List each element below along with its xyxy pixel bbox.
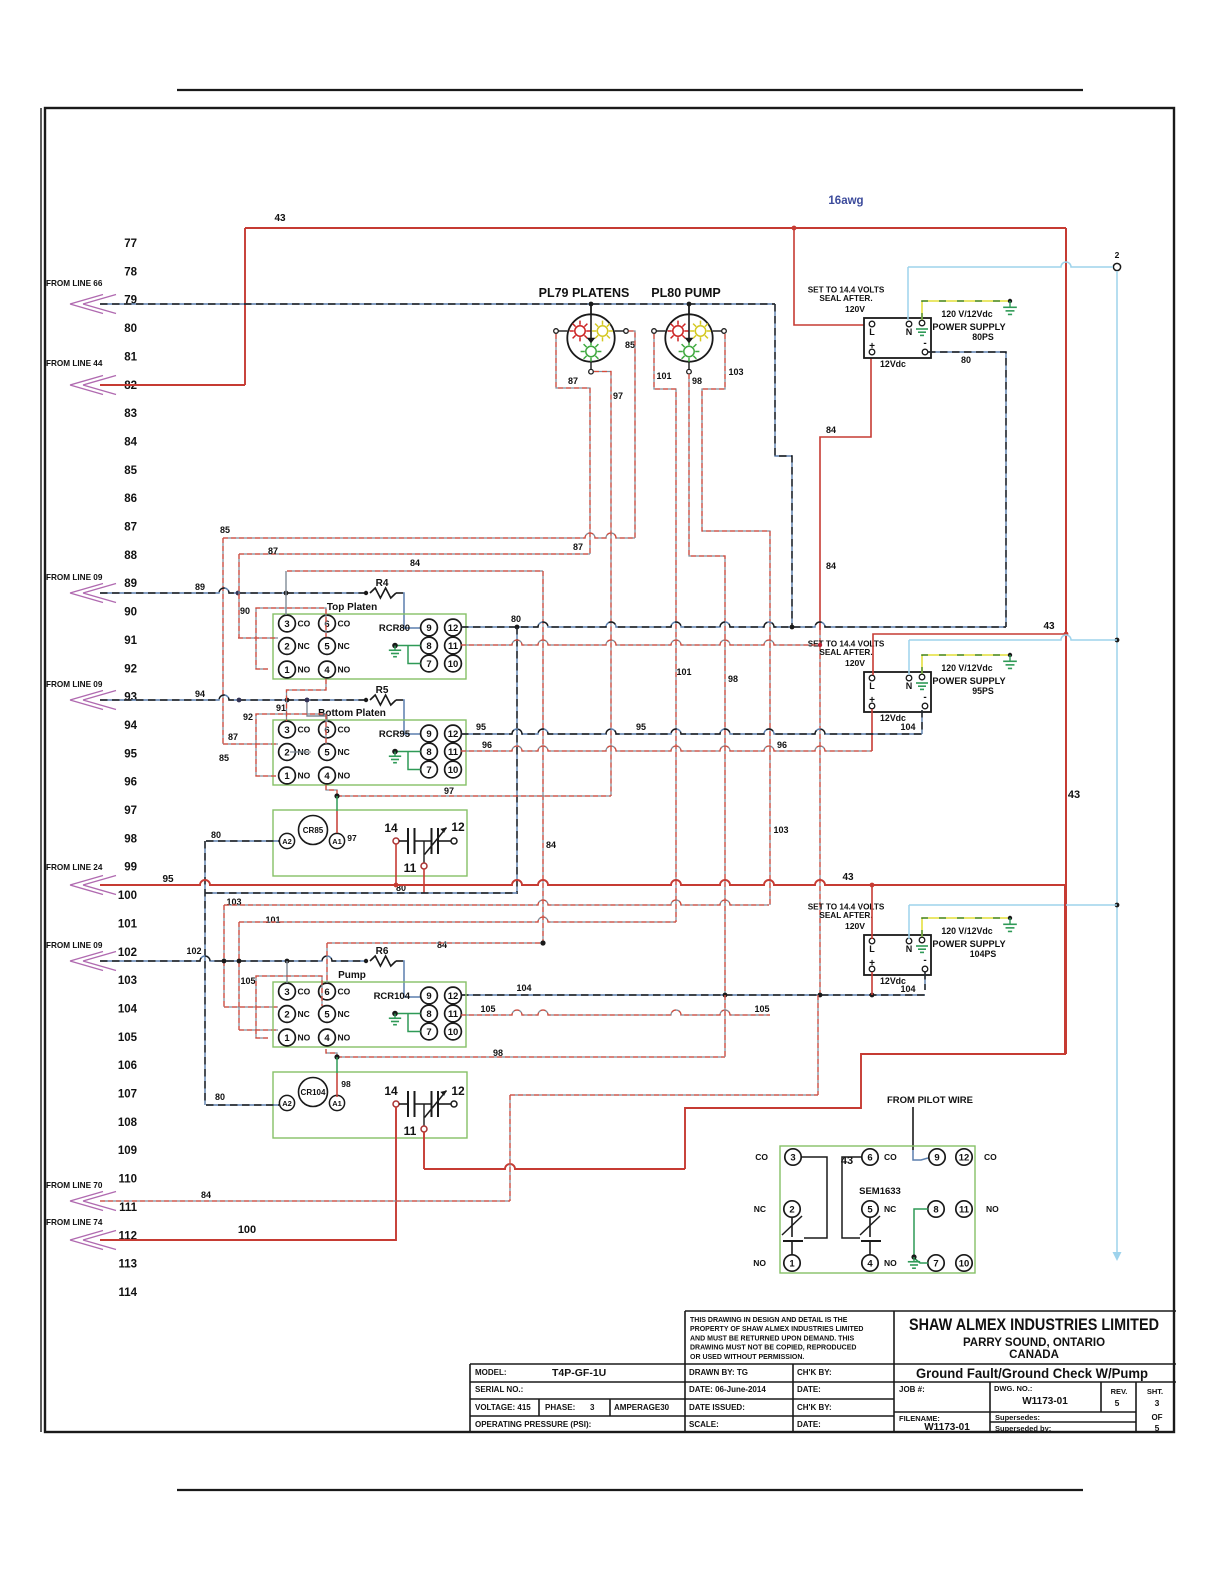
wire 91 RCR80 pin4 to rung 93 and RCR95 pin 3 [276, 679, 326, 721]
svg-text:-: - [923, 955, 926, 966]
wire 96 from RCR95 pin 11 [461, 740, 872, 751]
relay RCR80 (Top Platen) [273, 602, 466, 679]
svg-text:95: 95 [476, 722, 486, 732]
svg-text:RCR95: RCR95 [379, 729, 411, 740]
svg-text:NC: NC [338, 641, 350, 651]
wire 98 from PL80 bottom [689, 374, 738, 995]
svg-text:120 V/12Vdc: 120 V/12Vdc [941, 663, 992, 673]
svg-text:43: 43 [274, 213, 286, 224]
bus 80 (dashed) [461, 614, 1006, 629]
wire 80 to CR104 A2 [206, 1092, 279, 1105]
svg-text:POWER SUPPLY: POWER SUPPLY [932, 676, 1005, 686]
wire lamp stems [590, 304, 592, 315]
wire 43 top [100, 213, 1066, 1054]
svg-text:108: 108 [118, 1117, 138, 1129]
contact CR104 14-12-11 [384, 1084, 465, 1138]
svg-text:104PS: 104PS [970, 949, 997, 959]
svg-text:6: 6 [867, 1152, 872, 1163]
pilot light PL80 [652, 304, 727, 374]
svg-text:REV.: REV. [1111, 1387, 1128, 1396]
svg-text:NC: NC [298, 1009, 310, 1019]
svg-text:PHASE:: PHASE: [545, 1403, 575, 1412]
wire 43 CR104 11 feed [100, 789, 1176, 1433]
SEM contact column 1 [782, 1157, 827, 1255]
svg-text:FROM PILOT WIRE: FROM PILOT WIRE [887, 1095, 973, 1106]
wire 101 horizontal [239, 915, 676, 1030]
svg-text:4: 4 [324, 665, 330, 676]
svg-text:MODEL:: MODEL: [475, 1368, 507, 1377]
svg-text:R4: R4 [376, 578, 389, 589]
svg-text:98: 98 [728, 674, 738, 684]
svg-text:2: 2 [284, 641, 289, 652]
wire 97 to CR85 A1 [337, 796, 357, 843]
svg-text:93: 93 [124, 692, 137, 704]
svg-text:CR104: CR104 [301, 1088, 326, 1097]
svg-text:FROM LINE 09: FROM LINE 09 [46, 941, 103, 950]
svg-text:2: 2 [1115, 250, 1120, 260]
svg-text:2: 2 [284, 747, 289, 758]
wire 87 from PL79 left [556, 334, 590, 554]
svg-text:12Vdc: 12Vdc [880, 359, 906, 369]
svg-text:9: 9 [426, 729, 431, 740]
svg-text:Supersedes:: Supersedes: [995, 1413, 1040, 1422]
svg-text:NO: NO [298, 665, 311, 675]
wire 84 branch horizontal [287, 558, 556, 943]
svg-text:10: 10 [448, 659, 459, 670]
svg-text:80: 80 [124, 323, 137, 335]
svg-text:11: 11 [404, 1124, 417, 1138]
svg-text:NO: NO [338, 665, 351, 675]
svg-text:OF: OF [1151, 1413, 1162, 1422]
svg-text:9: 9 [426, 623, 431, 634]
svg-text:Pump: Pump [338, 970, 366, 981]
arrow FROM LINE 09 [46, 573, 116, 603]
svg-text:95: 95 [636, 722, 646, 732]
svg-text:80: 80 [511, 614, 521, 624]
wire 87 feed RCR80 pin 2 [238, 637, 278, 639]
wire 80 dashed link [205, 883, 517, 893]
svg-text:84: 84 [201, 1190, 211, 1200]
svg-text:12: 12 [959, 1152, 970, 1163]
svg-text:NO: NO [884, 1258, 897, 1268]
arrow FROM LINE 70 [46, 1181, 116, 1211]
svg-text:3: 3 [590, 1403, 595, 1412]
arrow FROM LINE 74 [46, 1218, 116, 1250]
svg-text:1: 1 [284, 1033, 290, 1044]
svg-text:89: 89 [124, 578, 137, 590]
wire: earth of 104PS to ground [922, 916, 1017, 937]
wire 103 horizontal [224, 897, 769, 1007]
svg-text:120V: 120V [845, 304, 865, 314]
svg-text:84: 84 [410, 558, 420, 568]
svg-text:5: 5 [1115, 1398, 1120, 1408]
wire 95 from RCR95 pin 12 (dashed) [461, 722, 922, 734]
svg-text:5: 5 [324, 747, 330, 758]
svg-text:96: 96 [777, 740, 787, 750]
svg-text:FROM LINE 70: FROM LINE 70 [46, 1181, 103, 1190]
svg-text:85: 85 [220, 525, 230, 535]
svg-text:DATE ISSUED:: DATE ISSUED: [689, 1403, 745, 1412]
relay RCR104 (Pump) [273, 970, 466, 1047]
svg-text:3: 3 [284, 619, 289, 630]
wire: earth of 80PS to ground [922, 299, 1017, 320]
svg-text:6: 6 [324, 987, 329, 998]
svg-text:FROM LINE 66: FROM LINE 66 [46, 279, 103, 288]
wire feed RCR104 pin 3 [286, 961, 288, 983]
svg-text:N: N [906, 327, 913, 337]
svg-text:SEM1633: SEM1633 [859, 1186, 901, 1197]
svg-text:88: 88 [124, 550, 137, 562]
svg-text:97: 97 [124, 805, 137, 817]
svg-text:6: 6 [324, 619, 329, 630]
svg-text:43: 43 [842, 872, 854, 883]
wire 90 jumper RCR80 pin5-pin1 [240, 606, 326, 669]
svg-text:7: 7 [426, 1027, 431, 1038]
wire 97 from RCR95 pin 4 [326, 785, 611, 799]
svg-text:105: 105 [240, 976, 255, 986]
svg-text:103: 103 [728, 367, 743, 377]
svg-text:81: 81 [124, 351, 137, 363]
svg-text:101: 101 [265, 915, 280, 925]
relay SEM1633 [753, 1146, 999, 1273]
svg-text:107: 107 [118, 1089, 137, 1101]
svg-text:120 V/12Vdc: 120 V/12Vdc [941, 309, 992, 319]
svg-text:-: - [923, 692, 926, 703]
svg-text:14: 14 [384, 821, 398, 835]
arrow FROM LINE 44 [46, 359, 116, 395]
svg-text:T4P-GF-1U: T4P-GF-1U [552, 1367, 606, 1379]
svg-text:N: N [906, 944, 913, 954]
svg-text:96: 96 [482, 740, 492, 750]
svg-text:1: 1 [284, 771, 290, 782]
svg-text:SCALE:: SCALE: [689, 1420, 719, 1429]
svg-text:85: 85 [625, 340, 635, 350]
wire 104 bus from 104PS minus (dashed) [461, 972, 925, 997]
svg-text:NO: NO [298, 771, 311, 781]
svg-text:3: 3 [790, 1152, 795, 1163]
wire: line 79 from line 66 (dashed) [100, 302, 792, 627]
svg-text:Top Platen: Top Platen [327, 602, 377, 613]
svg-text:FROM LINE 09: FROM LINE 09 [46, 680, 103, 689]
svg-text:SEAL AFTER.: SEAL AFTER. [819, 294, 872, 303]
svg-text:120V: 120V [845, 658, 865, 668]
svg-text:CH'K BY:: CH'K BY: [797, 1403, 832, 1412]
svg-text:SHT.: SHT. [1147, 1387, 1163, 1396]
svg-text:87: 87 [573, 542, 583, 552]
svg-text:103: 103 [118, 975, 137, 987]
svg-text:SEAL AFTER.: SEAL AFTER. [819, 911, 872, 920]
svg-text:AMPERAGE30: AMPERAGE30 [614, 1403, 670, 1412]
wire 97 from RCR80 pin 11 [461, 640, 822, 647]
svg-text:105: 105 [754, 1004, 769, 1014]
svg-text:CH'K BY:: CH'K BY: [797, 1368, 832, 1377]
svg-text:80PS: 80PS [972, 332, 994, 342]
svg-text:10: 10 [448, 1027, 459, 1038]
wire CR85 11 down to 80 bus [423, 869, 425, 893]
svg-text:R6: R6 [376, 946, 389, 957]
wire 104 from 95PS minus (dashed) [900, 710, 922, 734]
title block [470, 1311, 1176, 1432]
svg-text:85: 85 [219, 753, 229, 763]
svg-text:NC: NC [338, 1009, 350, 1019]
svg-text:5: 5 [324, 641, 330, 652]
bottom rule [177, 1489, 1083, 1491]
svg-text:Superseded by:: Superseded by: [995, 1424, 1051, 1433]
svg-text:106: 106 [118, 1060, 137, 1072]
svg-text:43: 43 [1068, 789, 1080, 801]
svg-text:97: 97 [444, 786, 454, 796]
svg-text:101: 101 [656, 371, 671, 381]
svg-text:80: 80 [211, 830, 221, 840]
svg-text:10: 10 [959, 1258, 970, 1269]
svg-text:97: 97 [347, 833, 357, 843]
svg-text:NO: NO [753, 1258, 766, 1268]
svg-text:78: 78 [124, 266, 137, 278]
svg-text:9: 9 [934, 1152, 939, 1163]
svg-text:-: - [923, 338, 926, 349]
svg-text:JOB #:: JOB #: [899, 1385, 925, 1394]
wire 80 to CR85 A2 [205, 830, 279, 1105]
svg-text:12: 12 [448, 729, 459, 740]
wire 84 from 80PS plus [820, 356, 871, 995]
power supply 95PS [808, 640, 1006, 724]
svg-text:99: 99 [124, 862, 137, 874]
svg-text:104: 104 [118, 1003, 138, 1015]
svg-text:90: 90 [124, 607, 137, 619]
svg-text:87: 87 [124, 522, 137, 534]
svg-text:7: 7 [426, 765, 431, 776]
svg-text:6: 6 [324, 725, 329, 736]
svg-text:105: 105 [118, 1032, 138, 1044]
wire 95/43 red line 99 [100, 872, 1065, 1054]
wire 97 from PL79 bottom [594, 372, 623, 797]
svg-text:W1173-01: W1173-01 [1022, 1396, 1068, 1407]
svg-text:94: 94 [124, 720, 137, 732]
arrow FROM LINE 24 [46, 863, 116, 895]
svg-text:THIS DRAWING IN DESIGN AND DET: THIS DRAWING IN DESIGN AND DETAIL IS THE [690, 1317, 848, 1324]
svg-text:3: 3 [284, 725, 289, 736]
svg-text:43: 43 [1043, 621, 1055, 632]
svg-text:95PS: 95PS [972, 686, 994, 696]
svg-text:84: 84 [437, 940, 447, 950]
wire rung 89 (from line 09) [100, 582, 364, 595]
ladder line numbers 77-114 [118, 238, 138, 1299]
svg-text:Ground Fault/Ground Check W/Pu: Ground Fault/Ground Check W/Pump [916, 1366, 1148, 1381]
wire rung 102 (from line 09) [100, 946, 364, 963]
svg-text:12: 12 [451, 1084, 465, 1098]
svg-text:DATE: 06-June-2014: DATE: 06-June-2014 [689, 1385, 766, 1394]
svg-text:8: 8 [933, 1204, 938, 1215]
svg-text:101: 101 [676, 667, 691, 677]
wire 98 from RCR104 pin 4 [326, 995, 725, 1060]
svg-text:SERIAL NO.:: SERIAL NO.: [475, 1385, 523, 1394]
svg-text:101: 101 [118, 918, 138, 930]
arrow FROM LINE 09 [46, 941, 116, 971]
svg-text:102: 102 [186, 946, 201, 956]
svg-text:1: 1 [284, 665, 290, 676]
svg-text:POWER SUPPLY: POWER SUPPLY [932, 322, 1005, 332]
svg-text:120V: 120V [845, 921, 865, 931]
svg-text:105: 105 [480, 1004, 495, 1014]
resistor R4 [364, 578, 403, 598]
svg-text:NC: NC [338, 747, 350, 757]
svg-text:NO: NO [298, 1033, 311, 1043]
svg-text:85: 85 [124, 465, 137, 477]
svg-text:14: 14 [384, 1084, 398, 1098]
terminal 2 [1113, 250, 1120, 271]
svg-text:114: 114 [118, 1287, 137, 1299]
wire 43 to 104PS L [871, 885, 873, 939]
svg-text:CO: CO [298, 619, 311, 629]
svg-text:87: 87 [228, 732, 238, 742]
svg-text:CANADA: CANADA [1009, 1349, 1059, 1361]
svg-text:11: 11 [448, 641, 459, 652]
svg-text:CO: CO [984, 1152, 997, 1162]
relay coil CR85 with contact [273, 810, 467, 876]
svg-text:2: 2 [789, 1204, 794, 1215]
svg-text:SEAL AFTER.: SEAL AFTER. [819, 648, 872, 657]
contact CR85 14-12-11 [384, 820, 465, 875]
svg-text:A2: A2 [282, 837, 292, 846]
wire pilot [913, 1107, 928, 1160]
svg-text:109: 109 [118, 1145, 137, 1157]
svg-text:104: 104 [516, 983, 531, 993]
svg-text:100: 100 [118, 890, 137, 902]
SEM ground wiring [908, 1209, 928, 1268]
wire neutral cyan bus [908, 262, 1122, 1261]
svg-text:11: 11 [404, 861, 417, 875]
title block text [475, 1316, 1163, 1433]
wire 103 from PL80 right [702, 334, 789, 905]
svg-text:97: 97 [613, 391, 623, 401]
svg-text:102: 102 [118, 947, 137, 959]
svg-text:VOLTAGE: 415: VOLTAGE: 415 [475, 1403, 531, 1412]
arrow FROM LINE 66 [46, 279, 116, 314]
svg-text:89: 89 [195, 582, 205, 592]
svg-text:98: 98 [692, 376, 702, 386]
svg-text:CR85: CR85 [303, 826, 324, 835]
svg-text:4: 4 [867, 1258, 873, 1269]
wire 104PS plus stub [871, 972, 873, 995]
wire 98 to CR104 A1 [337, 1057, 351, 1097]
svg-text:CO: CO [755, 1152, 768, 1162]
svg-text:L: L [869, 681, 875, 691]
svg-text:12: 12 [448, 991, 459, 1002]
svg-text:3: 3 [1155, 1398, 1160, 1408]
wire 105 jumper RCR104 pin5-pin1 [240, 976, 322, 1038]
relay coil CR104 with contact [273, 1072, 467, 1138]
svg-text:CO: CO [298, 725, 311, 735]
svg-text:DATE:: DATE: [797, 1385, 821, 1394]
pilot light PL79 [554, 304, 629, 374]
svg-text:90: 90 [240, 606, 250, 616]
wire 43 to 95PS L [873, 621, 1068, 675]
svg-text:4: 4 [324, 1033, 330, 1044]
svg-text:87: 87 [268, 546, 278, 556]
svg-text:9: 9 [426, 991, 431, 1002]
svg-text:POWER SUPPLY: POWER SUPPLY [932, 939, 1005, 949]
power supply 80PS [808, 286, 1006, 370]
svg-text:CO: CO [298, 987, 311, 997]
svg-text:11: 11 [448, 1009, 459, 1020]
svg-text:NO: NO [986, 1204, 999, 1214]
svg-text:NO: NO [338, 771, 351, 781]
svg-text:11: 11 [959, 1204, 970, 1215]
svg-text:W1173-01: W1173-01 [924, 1422, 970, 1433]
svg-text:5: 5 [867, 1204, 873, 1215]
svg-text:L: L [869, 944, 875, 954]
svg-text:1: 1 [789, 1258, 795, 1269]
wire: earth of 95PS to ground [922, 653, 1017, 674]
svg-text:8: 8 [426, 747, 431, 758]
svg-text:98: 98 [341, 1079, 351, 1089]
svg-text:12: 12 [451, 820, 465, 834]
svg-text:L: L [869, 327, 875, 337]
svg-text:12: 12 [448, 623, 459, 634]
wire 105 from RCR104 pin 11 [461, 1004, 770, 1015]
svg-text:A1: A1 [332, 1099, 342, 1108]
wire: 80PS L feed [792, 226, 866, 325]
svg-text:7: 7 [426, 659, 431, 670]
power supply 104PS [808, 903, 1006, 987]
svg-text:100: 100 [238, 1224, 256, 1236]
svg-text:10: 10 [448, 765, 459, 776]
svg-text:110: 110 [118, 1174, 137, 1186]
wire CR85 14 down to 95 line [395, 844, 397, 885]
wire 43 right vertical [1065, 228, 1067, 1054]
wire 100 CR104 14 to from-line-74 [100, 1107, 396, 1240]
svg-text:111: 111 [119, 1202, 138, 1214]
svg-text:91: 91 [276, 703, 286, 713]
wire rung 93 (from line 09) [100, 689, 364, 702]
svg-text:OPERATING PRESSURE (PSI):: OPERATING PRESSURE (PSI): [475, 1420, 591, 1429]
wire 92 jumper RCR95 pin5-pin1 [219, 542, 590, 776]
resistor R6 [364, 946, 403, 966]
svg-text:RCR80: RCR80 [379, 623, 410, 634]
svg-text:8: 8 [426, 641, 431, 652]
wire 84 to RCR104 pin 6 [327, 940, 546, 983]
svg-text:103: 103 [773, 825, 788, 835]
SEM contact column 2 [842, 1157, 881, 1255]
svg-text:92: 92 [243, 712, 253, 722]
svg-text:80: 80 [215, 1092, 225, 1102]
svg-text:8: 8 [426, 1009, 431, 1020]
svg-text:DRAWING MUST NOT BE COPIED, RE: DRAWING MUST NOT BE COPIED, REPRODUCED [690, 1345, 856, 1352]
svg-text:A2: A2 [282, 1099, 292, 1108]
svg-text:FROM LINE 74: FROM LINE 74 [46, 1218, 103, 1227]
svg-text:113: 113 [118, 1259, 137, 1271]
wire 80 from 80PS minus (dashed) [928, 352, 1006, 627]
wire 80 vertical to coils [516, 627, 518, 894]
wire R6 to pin 9 [403, 961, 421, 997]
svg-text:N: N [906, 681, 913, 691]
svg-text:DRAWN BY: TG: DRAWN BY: TG [689, 1368, 748, 1377]
wire 89 feed RCR80 pin 3 [285, 571, 287, 615]
wire 101 from PL80 left [654, 334, 692, 922]
svg-text:11: 11 [448, 747, 459, 758]
wire 85 from PL79 right [220, 331, 635, 744]
svg-text:DATE:: DATE: [797, 1420, 821, 1429]
svg-text:95: 95 [162, 874, 174, 885]
svg-text:91: 91 [124, 635, 137, 647]
relay RCR95 (Bottom Platen) [273, 708, 466, 785]
svg-text:98: 98 [124, 833, 137, 845]
svg-text:3: 3 [284, 987, 289, 998]
svg-text:2: 2 [284, 1009, 289, 1020]
wire 96 to 95PS plus [871, 709, 873, 751]
wire feed RCR95 pin 6 [305, 698, 327, 722]
svg-text:PL79 PLATENS: PL79 PLATENS [539, 286, 630, 300]
